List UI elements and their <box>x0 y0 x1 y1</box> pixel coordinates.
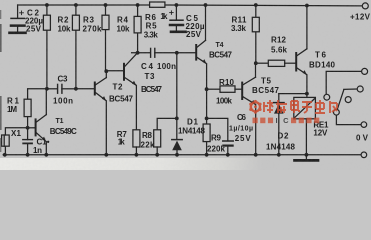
capacitor C5 <box>170 5 183 31</box>
watermark text 维库电子市场 <box>263 100 337 113</box>
relay contact circle C <box>345 97 351 103</box>
resistor R3 <box>72 5 79 89</box>
wire (pivot to terminal E) <box>336 115 361 125</box>
transistor T5 <box>242 63 256 155</box>
scan edge artifacts <box>0 10 2 152</box>
transistor T4 <box>196 5 206 155</box>
ground (C5) <box>171 30 186 33</box>
bottom 0V rail wire <box>3 154 361 156</box>
wire (T4 base node down to D1) <box>176 53 178 119</box>
relay RE1 coil <box>294 97 316 154</box>
top +12V rail wire <box>18 4 150 6</box>
wire (jog to C6) <box>207 118 228 140</box>
relay contact circle E <box>361 122 367 128</box>
transistor T3 <box>124 53 137 129</box>
wire (D2 top branch) <box>279 93 307 95</box>
watermark logo <box>249 100 261 114</box>
relay contact circle D (pivot) <box>334 109 340 115</box>
capacitor C3 <box>47 84 76 93</box>
ground (C2) <box>10 31 26 34</box>
wire (C4 to T4 base) <box>177 52 195 54</box>
transistor T6 <box>296 5 307 97</box>
terminal +12V <box>362 3 368 9</box>
relay contact: NC terminal wire <box>326 71 361 94</box>
resistor R12 <box>268 60 295 66</box>
paper background <box>0 0 371 170</box>
relay contact: NO terminal wire <box>344 88 357 90</box>
resistor R11 <box>252 5 259 63</box>
resistor R6 (series in rail) <box>150 2 165 7</box>
transistor T2 <box>95 71 107 155</box>
resistor R8 <box>154 130 161 155</box>
junction dots mid nodes <box>45 51 309 120</box>
wire (jog to R8) <box>157 118 177 129</box>
resistor R5 <box>134 5 141 53</box>
diode D2 <box>274 94 284 155</box>
switch lever <box>337 90 344 110</box>
terminal 0V <box>361 152 367 158</box>
resistor R4 <box>102 5 109 71</box>
capacitor C6 <box>223 141 233 155</box>
wire (R11/T5 collector to R12) <box>256 62 268 64</box>
wire (R4/T2 collector to T3 base) <box>106 70 123 72</box>
microphone X1 <box>2 128 28 155</box>
paper noise <box>0 0 371 170</box>
relay contact circle A <box>362 68 368 74</box>
resistor R9 <box>203 124 210 142</box>
resistor R7 <box>133 130 140 155</box>
junction dots bottom rail <box>3 153 308 157</box>
bottom light band <box>0 158 262 170</box>
capacitor C2 <box>11 5 25 32</box>
relay contact circle F <box>324 94 330 100</box>
wire (T1 base) <box>28 127 35 129</box>
junction dots top rail <box>45 3 309 7</box>
wire (C3 to T2 base) <box>76 88 94 90</box>
wire (collector node to R1) <box>28 89 47 99</box>
node (T1 base junction) <box>26 126 30 130</box>
ground (relay) <box>295 155 319 161</box>
capacitor C1 <box>23 140 33 155</box>
resistor R10 <box>207 86 242 92</box>
watermark small text row <box>253 116 320 125</box>
capacitor C4 <box>151 48 177 57</box>
diode D1 <box>172 118 182 154</box>
wire (T3 collector node) <box>132 52 151 54</box>
transistor T1 <box>36 89 47 155</box>
resistor R1 <box>24 99 31 139</box>
relay contact circle B <box>357 86 363 92</box>
resistor R2 <box>43 5 50 89</box>
